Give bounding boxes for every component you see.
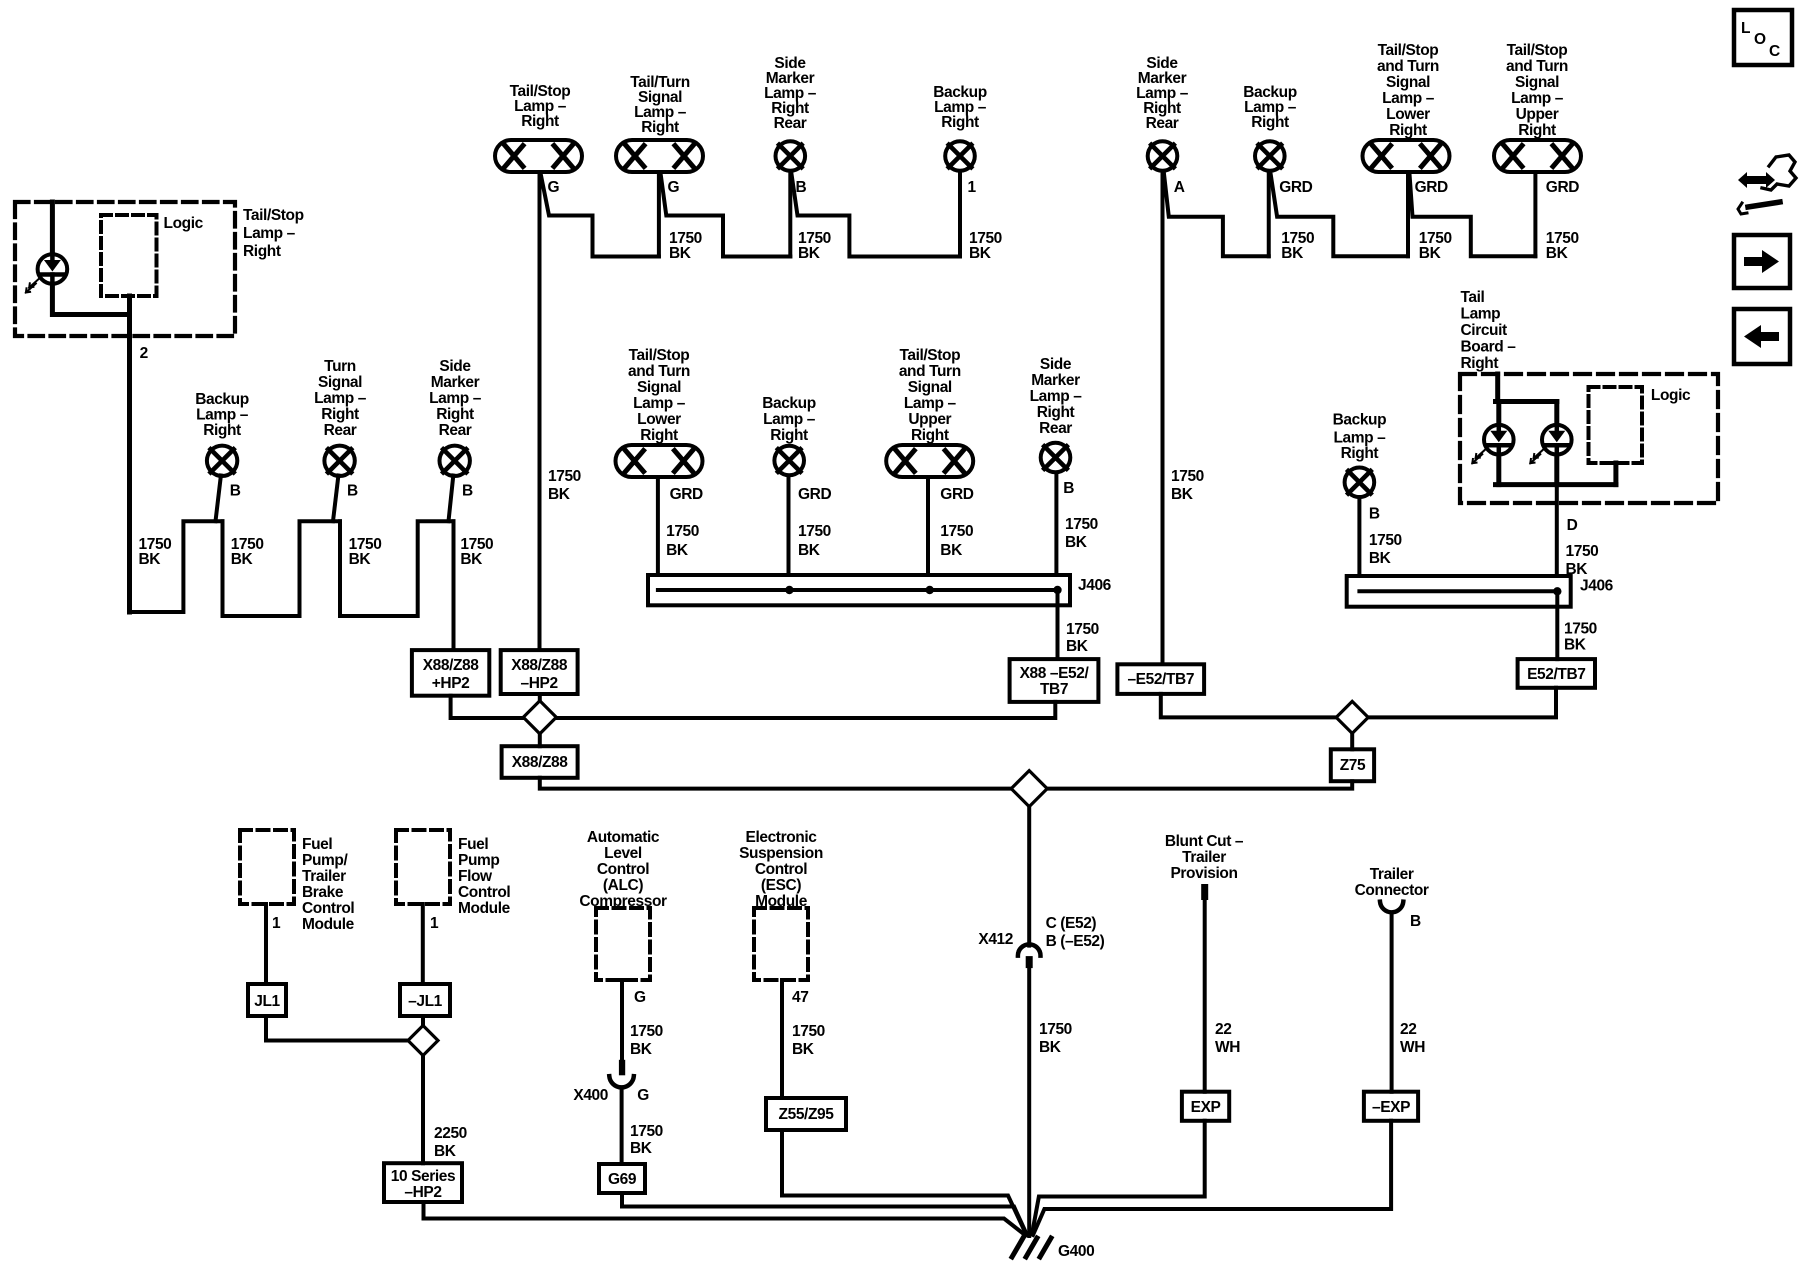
wire: G69 to ground bus (622, 1193, 1027, 1235)
svg-text:Lamp –: Lamp – (1511, 90, 1564, 107)
svg-text:Tail/Stop: Tail/Stop (899, 347, 960, 364)
wire: X88-E52/TB7 to splice bus (556, 702, 1055, 718)
wire: module to -JL1 (421, 904, 425, 984)
svg-text:WH: WH (1400, 1039, 1425, 1056)
svg-text:X88/Z88: X88/Z88 (511, 657, 568, 674)
connector -EXP (1364, 1092, 1418, 1121)
svg-text:Fuel: Fuel (458, 836, 488, 853)
svg-text:BK: BK (1171, 486, 1194, 503)
lamp: Backup Lamp - Right (center) (762, 395, 816, 475)
svg-text:G: G (634, 989, 646, 1006)
svg-text:Right: Right (321, 406, 359, 423)
svg-text:Trailer: Trailer (1182, 849, 1226, 866)
svg-text:1: 1 (272, 915, 281, 932)
svg-text:–JL1: –JL1 (408, 993, 443, 1010)
svg-text:Level: Level (604, 845, 642, 862)
svg-text:–E52/TB7: –E52/TB7 (1127, 671, 1194, 688)
wire: pin diagonal side marker lamp (449, 476, 454, 522)
svg-text:BK: BK (630, 1140, 653, 1157)
lamp: Turn Signal Lamp - Right Rear (left cluster) (314, 358, 367, 476)
svg-text:BK: BK (669, 245, 692, 262)
svg-text:X412: X412 (978, 931, 1013, 948)
svg-text:2: 2 (140, 345, 148, 362)
svg-text:J406: J406 (1580, 578, 1614, 595)
svg-text:Rear: Rear (1039, 420, 1072, 437)
svg-text:G: G (668, 179, 680, 196)
svg-text:Right: Right (436, 406, 474, 423)
svg-text:GRD: GRD (1415, 179, 1448, 196)
lamp: Backup Lamp - Right (right cluster) (1333, 411, 1387, 497)
svg-text:Right: Right (641, 119, 679, 136)
svg-text:Lamp –: Lamp – (314, 390, 367, 407)
svg-text:1750: 1750 (666, 523, 699, 540)
svg-text:Upper: Upper (908, 411, 951, 428)
wire: LED cathode to logic pin 2 (52, 285, 129, 315)
svg-text:+HP2: +HP2 (432, 675, 470, 692)
lamp: Tail/Stop and Turn Signal Lamp - Upper Right (center) (886, 347, 973, 477)
wire: Z55/Z95 to ground bus (782, 1130, 1026, 1234)
wire: lamp2 chain branch (661, 173, 791, 257)
module: Tail/Stop Lamp - Right (logic board, dashed) (15, 202, 235, 336)
svg-text:Tail/Stop: Tail/Stop (629, 347, 690, 364)
svg-text:47: 47 (792, 989, 808, 1006)
wire: lamp5 drop 1750 BK to -E52/TB7 (1161, 173, 1165, 665)
wire: JL1 to splice S3 (266, 1016, 408, 1041)
wire: ALC to X400 (620, 980, 624, 1060)
svg-text:Right: Right (1251, 114, 1289, 131)
svg-text:Automatic: Automatic (587, 829, 660, 846)
blunt cut end (1201, 884, 1208, 900)
wire: logic pin 2 drop (127, 296, 132, 612)
svg-text:C (E52): C (E52) (1046, 915, 1097, 932)
connector X400 inline (609, 1060, 634, 1088)
wire: board bottom rail (1496, 482, 1616, 487)
svg-text:1: 1 (968, 179, 977, 196)
connector J406 (left, inline splice pack) (648, 575, 1070, 605)
svg-text:X88/Z88: X88/Z88 (423, 657, 480, 674)
svg-text:22: 22 (1400, 1021, 1416, 1038)
svg-text:Rear: Rear (439, 422, 472, 439)
wire: lamp6 vertical to chain (1267, 173, 1271, 257)
ground G400 (1012, 1238, 1051, 1257)
svg-text:Pump: Pump (458, 852, 499, 869)
splice diamond Z75 (1336, 701, 1368, 733)
wire: lamp6 chain branch (1271, 173, 1409, 256)
svg-text:2250: 2250 (434, 1125, 467, 1142)
module: Fuel Pump Flow Control Module (dashed) (396, 830, 450, 904)
svg-text:D: D (1567, 517, 1578, 534)
svg-text:G69: G69 (608, 1171, 637, 1188)
svg-text:Lamp –: Lamp – (1030, 388, 1083, 405)
wire: lower-right lamp to J406 (656, 479, 660, 575)
svg-text:Control: Control (302, 900, 354, 917)
svg-text:1750: 1750 (1171, 468, 1204, 485)
svg-text:B: B (230, 483, 241, 500)
svg-text:X88 –E52/: X88 –E52/ (1020, 665, 1090, 682)
connector X88 -E52/TB7 (1010, 659, 1099, 702)
svg-text:B: B (1063, 480, 1074, 497)
svg-text:Right: Right (1461, 355, 1499, 372)
svg-text:and Turn: and Turn (628, 363, 690, 380)
svg-text:BK: BK (792, 1041, 815, 1058)
wire: J406 output 1750 BK (1056, 590, 1060, 659)
svg-text:C: C (1769, 43, 1780, 60)
svg-text:–HP2: –HP2 (404, 1184, 441, 1201)
svg-text:Right: Right (1341, 445, 1379, 462)
svg-text:1750: 1750 (1564, 620, 1597, 637)
svg-text:Right: Right (1518, 122, 1556, 139)
svg-text:1750: 1750 (1039, 1021, 1072, 1038)
svg-text:BK: BK (349, 551, 372, 568)
svg-text:Backup: Backup (1333, 411, 1387, 428)
svg-text:1750: 1750 (1369, 532, 1402, 549)
svg-text:BK: BK (798, 542, 821, 559)
svg-text:and Turn: and Turn (899, 363, 961, 380)
wire: module to JL1 (264, 904, 268, 984)
module: Tail Lamp Circuit Board - Right (dashed) (1460, 374, 1718, 503)
svg-text:Tail/Stop: Tail/Stop (243, 207, 304, 224)
svg-text:Signal: Signal (318, 374, 362, 391)
wire: trailer connector to -EXP (1390, 914, 1394, 1092)
icon: LOC box (1734, 10, 1792, 65)
connector J406 (right) (1347, 576, 1571, 607)
connector Z75 (1331, 749, 1374, 781)
connector G69 (599, 1164, 645, 1193)
lamp: Backup Lamp - Right (top) (933, 84, 987, 171)
svg-text:Trailer: Trailer (1370, 866, 1414, 883)
svg-text:TB7: TB7 (1040, 681, 1068, 698)
lamp: Side Marker Lamp - Right Rear (center) (1030, 356, 1083, 472)
svg-text:Electronic: Electronic (746, 829, 818, 846)
wire: X412 to G400 (1027, 968, 1031, 1236)
wire: -EXP to ground bus (1033, 1121, 1391, 1235)
svg-text:E52/TB7: E52/TB7 (1527, 666, 1585, 683)
svg-text:BK: BK (434, 1143, 457, 1160)
svg-text:BK: BK (666, 542, 689, 559)
svg-text:BK: BK (969, 245, 992, 262)
wire: LED2 connections (1554, 402, 1559, 424)
svg-text:Side: Side (439, 358, 471, 375)
svg-text:Signal: Signal (637, 379, 681, 396)
svg-text:Lamp –: Lamp – (633, 395, 686, 412)
wire: ESC to Z55/Z95 (780, 980, 784, 1098)
wire: backup center to J406 (787, 477, 791, 575)
svg-text:–EXP: –EXP (1372, 1099, 1410, 1116)
connector X88/Z88 +HP2 (412, 650, 489, 696)
J406 internal bus (658, 588, 1058, 592)
wire: side marker drop to X88/Z88 +HP2 (452, 521, 456, 650)
svg-text:Backup: Backup (195, 391, 249, 408)
svg-text:Tail/Stop: Tail/Stop (1507, 42, 1568, 59)
svg-text:Trailer: Trailer (302, 868, 346, 885)
wire: X88/Z88 to splice S2 (540, 778, 1011, 789)
splice diamond S2 (1011, 771, 1047, 807)
svg-text:Z75: Z75 (1340, 757, 1366, 774)
svg-text:Lamp –: Lamp – (243, 225, 296, 242)
wire: -HP2 to splice S1 (538, 694, 542, 701)
svg-text:Control: Control (458, 884, 510, 901)
wire: backup right to J406 (1357, 497, 1361, 576)
svg-text:Suspension: Suspension (739, 845, 823, 862)
wire: -E52/TB7 to Z75 splice (1161, 694, 1336, 718)
wire: lamp3 vertical to chain (788, 173, 792, 257)
wire: lamp1 ground drop 1750 BK (538, 174, 542, 650)
svg-text:WH: WH (1215, 1039, 1240, 1056)
wire: turn signal drop and chain to side marker (340, 521, 454, 616)
svg-text:1750: 1750 (798, 523, 831, 540)
svg-text:Signal: Signal (908, 379, 952, 396)
svg-text:BK: BK (1369, 550, 1392, 567)
wire: board output D (1555, 485, 1559, 576)
svg-text:Right: Right (770, 427, 808, 444)
svg-text:Lamp –: Lamp – (763, 411, 816, 428)
svg-text:Flow: Flow (458, 868, 493, 885)
svg-text:JL1: JL1 (254, 993, 280, 1010)
svg-text:Signal: Signal (1515, 74, 1559, 91)
svg-text:Rear: Rear (324, 422, 357, 439)
icon: harness double-arrow with wrench (1738, 155, 1796, 214)
lamp: Tail/Turn Signal Lamp - Right (top) (616, 74, 703, 172)
svg-text:1750: 1750 (940, 523, 973, 540)
svg-text:Connector: Connector (1355, 882, 1429, 899)
svg-text:Lamp –: Lamp – (429, 390, 482, 407)
wire: backup lamp drop and chain to turn signal lamp (223, 521, 341, 616)
svg-text:EXP: EXP (1191, 1099, 1221, 1116)
icon: back arrow box (1734, 309, 1790, 364)
splice diamond S1 (523, 701, 556, 734)
svg-text:Control: Control (597, 861, 649, 878)
wire: lamp4 vertical to chain (958, 173, 962, 257)
svg-text:1750: 1750 (1066, 621, 1099, 638)
wire: S3 drop 2250 BK to 10 Series (421, 1056, 425, 1164)
module: ESC Module (dashed) (754, 908, 808, 980)
logic block inside left module (101, 215, 157, 296)
svg-text:Lower: Lower (637, 411, 681, 428)
wire: lamp7 vertical to chain (1406, 174, 1410, 256)
wire: lamp7 chain branch (1410, 174, 1536, 256)
svg-text:Tail/Stop: Tail/Stop (1378, 42, 1439, 59)
svg-text:J406: J406 (1078, 577, 1112, 594)
svg-text:10 Series: 10 Series (391, 1168, 456, 1185)
wire: EXP to ground bus (1032, 1121, 1205, 1234)
svg-text:Right: Right (243, 243, 281, 260)
svg-text:Lamp –: Lamp – (904, 395, 957, 412)
svg-text:Right: Right (911, 427, 949, 444)
wire: E52/TB7 to Z75 splice (1368, 688, 1556, 718)
svg-text:and Turn: and Turn (1377, 58, 1439, 75)
module: Fuel Pump/Trailer Brake Control Module (dashed) (240, 830, 294, 904)
svg-text:1750: 1750 (548, 468, 581, 485)
wire: board entry stub (1495, 374, 1500, 402)
svg-text:Rear: Rear (1146, 115, 1179, 132)
svg-text:G: G (637, 1087, 649, 1104)
svg-text:1750: 1750 (630, 1023, 663, 1040)
svg-text:Blunt Cut –: Blunt Cut – (1165, 833, 1244, 850)
svg-text:GRD: GRD (940, 486, 973, 503)
connector JL1 (248, 984, 286, 1016)
svg-text:G400: G400 (1058, 1243, 1094, 1260)
svg-text:Pump/: Pump/ (302, 852, 348, 869)
icon: forward arrow box (1734, 235, 1790, 288)
svg-text:Z55/Z95: Z55/Z95 (779, 1106, 835, 1123)
svg-text:Right: Right (941, 114, 979, 131)
lamp: Side Marker Lamp - Right Rear (top right) (1136, 55, 1189, 171)
svg-text:Module: Module (458, 900, 511, 917)
svg-text:1750: 1750 (1566, 543, 1599, 560)
wire: lamp8 vertical to chain (1533, 174, 1537, 256)
wire: LED anode stub to module top (50, 202, 55, 253)
lamp: Backup Lamp - Right (left cluster) (195, 391, 249, 476)
svg-text:L: L (1741, 20, 1750, 37)
svg-text:Right: Right (521, 113, 559, 130)
wire: logic chain to backup lamp (130, 521, 223, 612)
svg-text:Right: Right (203, 422, 241, 439)
svg-text:Circuit: Circuit (1461, 322, 1508, 339)
svg-text:Upper: Upper (1516, 106, 1559, 123)
svg-text:BK: BK (798, 245, 821, 262)
svg-text:Fuel: Fuel (302, 836, 332, 853)
connector 10 Series -HP2 (384, 1163, 462, 1202)
connector X88/Z88 -HP2 (501, 650, 578, 694)
svg-text:BK: BK (1419, 245, 1442, 262)
connector -E52/TB7 (1117, 664, 1204, 694)
svg-text:–HP2: –HP2 (521, 675, 558, 692)
wire: S2 to Z75 drop (1047, 781, 1352, 788)
wire: 10 Series to ground bus (424, 1202, 1026, 1235)
svg-text:BK: BK (1066, 638, 1089, 655)
connector Z55/Z95 (766, 1098, 846, 1130)
connector X88/Z88 (502, 746, 578, 778)
J406 right internal bus (1359, 589, 1557, 593)
svg-text:Provision: Provision (1170, 865, 1237, 882)
svg-text:BK: BK (940, 542, 963, 559)
svg-text:GRD: GRD (798, 486, 831, 503)
trailer connector end (1380, 902, 1403, 913)
wire: side marker center to J406 (1054, 474, 1058, 575)
lamp: Tail/Stop and Turn Signal Lamp - Lower Right (center) (616, 347, 703, 477)
svg-text:Lamp: Lamp (1461, 306, 1501, 323)
wire: lamp3 chain branch (792, 174, 961, 257)
svg-text:Backup: Backup (762, 395, 816, 412)
svg-text:B: B (1410, 913, 1421, 930)
svg-text:BK: BK (1281, 245, 1304, 262)
module: ALC Compressor (dashed) (596, 908, 650, 980)
svg-text:Lower: Lower (1386, 106, 1430, 123)
wire: S1 to X88/Z88 box (538, 734, 542, 746)
svg-text:1750: 1750 (630, 1123, 663, 1140)
lamp: Backup Lamp - Right (top right) (1243, 84, 1297, 171)
svg-text:Logic: Logic (164, 215, 204, 232)
wire: LED1 connections (1496, 402, 1501, 424)
svg-text:(ESC): (ESC) (761, 877, 801, 894)
wire: lamp2 vertical to chain (657, 173, 661, 257)
svg-text:1750: 1750 (792, 1023, 825, 1040)
svg-text:Control: Control (755, 861, 807, 878)
connector X412 inline (1018, 944, 1041, 968)
svg-text:A: A (1174, 179, 1185, 196)
wire: logic block drop to rail (1613, 463, 1618, 485)
svg-text:X88/Z88: X88/Z88 (512, 754, 569, 771)
svg-text:GRD: GRD (670, 486, 703, 503)
svg-text:Lamp –: Lamp – (196, 407, 249, 424)
svg-text:Turn: Turn (324, 358, 356, 375)
svg-text:X400: X400 (573, 1087, 608, 1104)
svg-text:Marker: Marker (431, 374, 480, 391)
svg-text:Right: Right (1037, 404, 1075, 421)
svg-text:BK: BK (460, 551, 483, 568)
svg-text:GRD: GRD (1546, 179, 1579, 196)
svg-text:(ALC): (ALC) (603, 877, 643, 894)
svg-text:Module: Module (302, 916, 355, 933)
svg-text:Board –: Board – (1461, 339, 1517, 356)
svg-text:and Turn: and Turn (1506, 58, 1568, 75)
svg-text:Logic: Logic (1651, 387, 1691, 404)
lamp: Side Marker Lamp - Right Rear (left cluster) (429, 358, 482, 476)
svg-text:GRD: GRD (1279, 179, 1312, 196)
lamp: Tail/Stop and Turn Signal Lamp - Lower Right (top) (1363, 42, 1450, 172)
svg-text:O: O (1754, 31, 1766, 48)
logic block inside right board (1589, 387, 1643, 463)
svg-text:BK: BK (139, 551, 162, 568)
svg-text:BK: BK (1065, 534, 1088, 551)
lamp: Tail/Stop Lamp - Right (top, dual filament) (495, 83, 582, 172)
svg-text:Right: Right (640, 427, 678, 444)
svg-text:Rear: Rear (774, 115, 807, 132)
wire: board top rail (1496, 399, 1557, 404)
lamp: Tail/Stop and Turn Signal Lamp - Upper Right (top) (1494, 42, 1581, 172)
lamp: Side Marker Lamp - Right Rear (top) (764, 55, 817, 171)
wire: Z75 splice to Z75 box (1350, 733, 1354, 749)
svg-text:BK: BK (1546, 245, 1569, 262)
connector -JL1 (400, 984, 450, 1016)
svg-text:BK: BK (231, 551, 254, 568)
wire: blunt cut to EXP (1203, 900, 1207, 1092)
svg-text:B: B (347, 483, 358, 500)
svg-text:Lamp –: Lamp – (1382, 90, 1435, 107)
wire: lamp5 chain branch (1164, 174, 1269, 256)
svg-text:Marker: Marker (1031, 372, 1080, 389)
svg-text:B: B (462, 483, 473, 500)
svg-text:Brake: Brake (302, 884, 344, 901)
wire: upper-right lamp to J406 (926, 479, 930, 575)
svg-text:G: G (548, 179, 560, 196)
svg-text:Tail: Tail (1461, 289, 1485, 306)
wire: +HP2 to splice S1 (451, 696, 524, 718)
junction dot J406 right (1553, 587, 1561, 595)
svg-text:Right: Right (1389, 122, 1427, 139)
svg-text:Signal: Signal (1386, 74, 1430, 91)
svg-text:22: 22 (1215, 1021, 1231, 1038)
wire: lamp1 chain branch (541, 173, 659, 257)
wire: -JL1 to splice S3 (421, 1016, 425, 1026)
wire: X400 to G69 (620, 1089, 624, 1165)
wire: J406 right output 1750 BK (1555, 591, 1559, 659)
svg-text:B (–E52): B (–E52) (1046, 933, 1105, 950)
LED D1 in left module (26, 254, 67, 292)
svg-text:Side: Side (1040, 356, 1072, 373)
wire: pin diagonal turn signal lamp (333, 476, 338, 522)
svg-text:1: 1 (430, 915, 439, 932)
wire: pin diagonal backup lamp (216, 476, 221, 522)
svg-text:B: B (1369, 506, 1380, 523)
svg-text:B: B (796, 179, 807, 196)
junction dots J406 (785, 586, 793, 594)
svg-text:BK: BK (1039, 1039, 1062, 1056)
connector EXP (1182, 1092, 1229, 1121)
wire: S2 main drop 1750 BK to X412 (1027, 807, 1031, 946)
connector E52/TB7 (1518, 659, 1595, 688)
svg-text:1750: 1750 (1065, 516, 1098, 533)
